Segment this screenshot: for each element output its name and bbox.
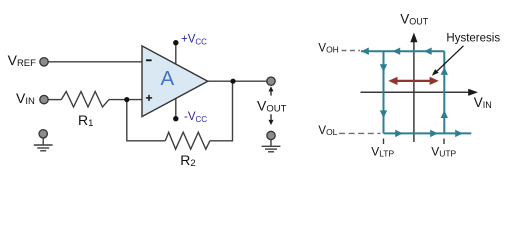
svg-text:VOH: VOH — [318, 42, 338, 54]
svg-text:VOL: VOL — [318, 125, 337, 137]
svg-text:A: A — [160, 67, 174, 90]
svg-text:Hysteresis: Hysteresis — [446, 33, 500, 45]
